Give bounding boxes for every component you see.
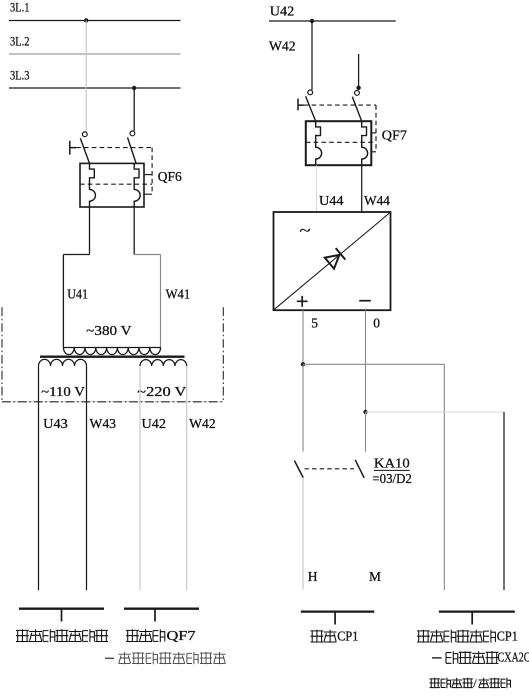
terminal bar: system CP1 — [301, 610, 375, 612]
wire W41 vertical — [160, 255, 162, 348]
svg-text:3L.3: 3L.3 — [10, 67, 30, 82]
svg-text:~220 V: ~220 V — [137, 384, 187, 399]
svg-text:0: 0 — [373, 315, 380, 330]
QF7 pole 2 contact blade — [352, 97, 361, 122]
transformer core bar — [40, 356, 185, 358]
svg-text:U42: U42 — [270, 4, 294, 19]
QF6 linkage dashed vertical — [151, 148, 153, 195]
QF6 right tick upper — [144, 174, 152, 176]
wire bend right to W41 — [134, 254, 160, 256]
svg-text:W44: W44 — [364, 193, 390, 208]
svg-text:5: 5 — [311, 315, 318, 330]
bus line 3L.1 — [9, 20, 181, 22]
label 一体放大器 — [432, 651, 498, 664]
KA10 label underline — [374, 469, 410, 471]
wire 0V rail continues down — [365, 412, 367, 452]
breaker QF7 operating handle — [298, 99, 304, 111]
junction on U42 — [310, 19, 314, 23]
QF6 linkage dashed horizontal — [76, 147, 152, 149]
KA10 contact blade right — [355, 460, 364, 478]
wire + rail horizontal — [303, 363, 444, 365]
terminal bar 3 stub — [334, 612, 336, 625]
terminal bar 2 stub — [154, 609, 156, 622]
svg-text:U43: U43 — [43, 416, 68, 431]
QF6 pole 1 contact blade — [80, 138, 89, 163]
svg-text:~380 V: ~380 V — [86, 323, 132, 338]
wire W42 (secondary) — [186, 366, 188, 590]
QF7 pole 1 thermal element — [316, 121, 322, 165]
enclosure boundary bottom (dash-dot) — [2, 401, 223, 403]
rectifier unit box — [274, 212, 391, 310]
svg-text:CP1: CP1 — [337, 628, 358, 643]
wire U43 — [38, 366, 40, 590]
svg-text:QF7: QF7 — [382, 128, 407, 143]
rectifier diagonal — [274, 213, 390, 310]
wire QF6 pole1 down — [89, 207, 91, 255]
QF6 pole 1 thermal element — [90, 163, 96, 207]
terminal bar: IO unit CP1 — [439, 610, 515, 612]
wire 3L.3 drop to QF6 pole 2 — [133, 88, 135, 131]
wire + rail down to IO unit — [443, 364, 445, 590]
svg-text:3L.2: 3L.2 — [10, 33, 30, 48]
KA10 linkage dashed — [305, 468, 355, 470]
svg-text:QF7: QF7 — [167, 628, 196, 643]
QF6 pole 2 fixed contact circle — [130, 131, 135, 136]
wire W42 stub to QF7 pole 2 — [358, 54, 360, 90]
svg-text:CP1: CP1 — [497, 628, 518, 643]
QF6 pole 2 thermal element — [134, 163, 140, 207]
label 系统启动 — [430, 678, 473, 688]
svg-text:W41: W41 — [166, 286, 191, 301]
svg-text:~: ~ — [300, 224, 311, 240]
svg-text:3L.1: 3L.1 — [10, 0, 30, 14]
junction on 3L.1 — [84, 18, 88, 22]
QF6 pole 2 contact blade — [128, 137, 137, 163]
svg-text:U44: U44 — [319, 193, 344, 208]
breaker QF6 body box — [80, 163, 144, 207]
enclosure boundary bottom underlay — [2, 401, 223, 403]
wire U42 drop to QF7 pole 1 — [311, 21, 313, 90]
transformer secondary winding 220V — [140, 360, 187, 366]
label 输入输出单元 — [417, 630, 496, 643]
junction node 0V rail — [363, 410, 367, 414]
svg-text:W42: W42 — [269, 39, 296, 54]
label 接触器控制回路 — [16, 629, 108, 642]
breaker QF6 operating handle — [70, 141, 76, 155]
svg-text:U41: U41 — [67, 286, 88, 301]
svg-text:=03/D2: =03/D2 — [372, 471, 411, 486]
wire W43 — [86, 366, 88, 590]
QF7 pole 1 fixed contact circle — [308, 90, 313, 95]
wire 0V rail down to IO unit — [503, 412, 505, 590]
bus line U42 — [269, 20, 396, 22]
rectifier minus terminal — [359, 300, 371, 302]
svg-text:W42: W42 — [189, 416, 216, 431]
junction node + rail — [301, 362, 305, 366]
QF7 pole 2 thermal element — [362, 121, 368, 165]
QF6 right tick lower — [144, 193, 152, 195]
label 断路器 — [126, 629, 165, 642]
terminal bar: contactor control circuit — [19, 608, 104, 610]
transformer secondary winding 110V — [39, 359, 87, 366]
label 分线盘 — [479, 678, 511, 688]
wire H down to system CP1 — [302, 478, 304, 590]
svg-text:W43: W43 — [90, 416, 117, 431]
svg-text:CXA2C: CXA2C — [498, 649, 529, 664]
QF7 pole 2 fixed contact circle — [355, 91, 360, 96]
QF7 linkage dashed vertical — [375, 105, 377, 152]
bus line 3L.3 — [9, 87, 181, 89]
terminal bar: breaker QF7 feed — [124, 608, 199, 610]
wire 0V rail horizontal (light) — [366, 411, 505, 413]
label 系统 — [311, 630, 337, 643]
wire + rail continues down — [302, 364, 304, 451]
transformer primary winding 380V — [63, 348, 160, 355]
wire 3L.1 drop to QF6 pole 1 — [85, 21, 87, 132]
svg-text:~110 V: ~110 V — [41, 384, 85, 399]
QF6 pole 1 fixed contact circle — [82, 132, 87, 137]
KA10 contact blade left — [294, 461, 303, 478]
bus line 3L.2 — [9, 53, 181, 55]
enclosure boundary left (dash-dot) — [1, 307, 3, 402]
QF7 pole 1 contact blade — [306, 96, 316, 121]
svg-text:KA10: KA10 — [374, 456, 410, 471]
QF7 right tick lower — [371, 151, 376, 153]
rectifier diode symbol — [325, 248, 346, 269]
terminal bar 4 stub — [471, 612, 473, 625]
wire W44 — [361, 165, 363, 212]
svg-text:M: M — [369, 569, 381, 584]
svg-text:QF6: QF6 — [158, 169, 182, 184]
wire U41 vertical — [62, 255, 64, 348]
QF7 internal dashed trip line — [306, 141, 376, 143]
label 一体放大器散热风扇 — [105, 652, 226, 664]
rectifier plus terminal — [297, 296, 308, 307]
wire QF6 pole2 down — [133, 207, 135, 255]
wire U44 (very light) — [316, 165, 318, 212]
junction dot on W42 stub — [356, 86, 360, 90]
QF6 internal dashed trip line — [80, 183, 152, 185]
svg-text:H: H — [308, 569, 318, 584]
wire bend left to U41 — [63, 254, 89, 256]
wire U42 (secondary) — [139, 366, 141, 590]
breaker QF7 body box — [306, 121, 372, 165]
terminal bar 1 stub — [61, 609, 63, 622]
enclosure boundary right (dash-dot) — [222, 307, 224, 402]
wire +5 output down — [302, 310, 304, 364]
svg-text:U42: U42 — [142, 416, 167, 431]
QF7 linkage dashed horizontal — [304, 104, 376, 106]
QF7 right tick upper — [371, 132, 376, 134]
wire 0V output down — [365, 310, 367, 412]
junction on 3L.3 — [132, 86, 136, 90]
